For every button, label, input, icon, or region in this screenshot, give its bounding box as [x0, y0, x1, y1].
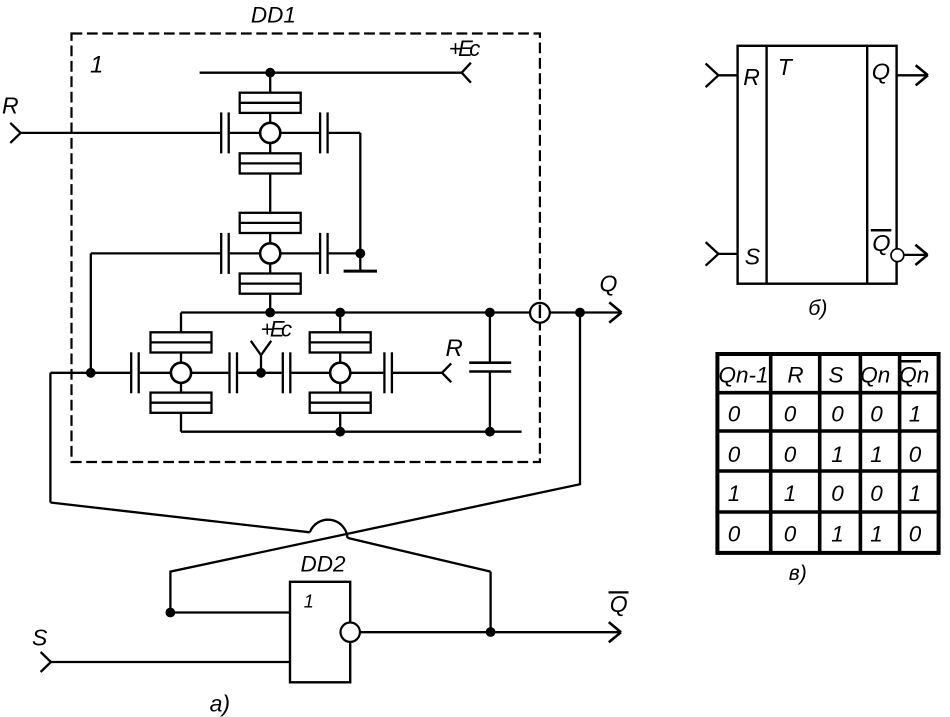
svg-text:1: 1 — [870, 522, 883, 547]
svg-text:0: 0 — [784, 442, 797, 467]
svg-text:R: R — [446, 335, 463, 362]
svg-text:T: T — [778, 54, 794, 80]
svg-text:1: 1 — [90, 52, 103, 79]
svg-text:0: 0 — [870, 401, 883, 426]
svg-text:DD1: DD1 — [251, 2, 296, 27]
svg-text:Qn-1: Qn-1 — [718, 362, 768, 387]
svg-text:1: 1 — [831, 442, 844, 467]
svg-text:1: 1 — [909, 401, 922, 426]
svg-text:DD2: DD2 — [301, 551, 346, 576]
svg-text:R: R — [787, 362, 803, 387]
svg-text:Q: Q — [610, 591, 628, 617]
svg-text:в): в) — [789, 562, 807, 585]
svg-text:R: R — [2, 93, 19, 119]
svg-text:1: 1 — [304, 591, 314, 611]
svg-text:+Ec: +Ec — [449, 36, 481, 61]
svg-text:1: 1 — [909, 481, 922, 506]
svg-text:0: 0 — [728, 442, 741, 467]
svg-text:R: R — [743, 64, 760, 90]
svg-text:0: 0 — [784, 522, 797, 547]
svg-text:1: 1 — [728, 481, 741, 506]
svg-text:0: 0 — [870, 481, 883, 506]
svg-text:Qn: Qn — [860, 362, 890, 387]
svg-text:0: 0 — [728, 401, 741, 426]
svg-text:б): б) — [808, 296, 827, 320]
svg-text:1: 1 — [870, 442, 883, 467]
svg-text:Q: Q — [872, 230, 890, 256]
svg-text:1: 1 — [784, 481, 797, 506]
svg-text:Qn: Qn — [899, 362, 929, 387]
svg-text:0: 0 — [909, 522, 922, 547]
svg-text:0: 0 — [728, 522, 741, 547]
svg-text:1: 1 — [831, 522, 844, 547]
svg-text:S: S — [32, 624, 48, 650]
svg-text:Q: Q — [600, 271, 618, 297]
svg-text:Q: Q — [872, 58, 890, 84]
svg-text:S: S — [828, 362, 843, 387]
svg-text:0: 0 — [784, 401, 797, 426]
svg-text:0: 0 — [831, 481, 844, 506]
svg-text:а): а) — [210, 691, 230, 717]
svg-text:S: S — [745, 244, 761, 270]
svg-text:0: 0 — [909, 442, 922, 467]
svg-text:+Ec: +Ec — [261, 316, 293, 341]
svg-text:0: 0 — [831, 401, 844, 426]
